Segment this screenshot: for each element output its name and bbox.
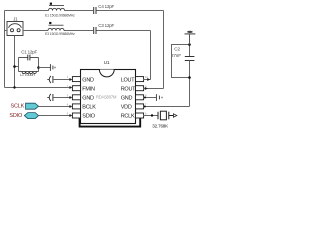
junction dot top — [188, 43, 191, 46]
svg-text:E3 15GΩ.99686MHz: E3 15GΩ.99686MHz — [45, 32, 75, 36]
capacitor C2 — [185, 57, 195, 61]
inductor E3 — [48, 25, 64, 30]
svg-text:RCLK: RCLK — [121, 114, 135, 120]
wire VDD — [144, 45, 190, 107]
wire LOUT — [144, 79, 151, 81]
capacitor (pin1 row) — [47, 76, 69, 83]
svg-text:BCLK: BCLK — [82, 105, 96, 111]
wire RCLK — [144, 115, 158, 117]
svg-text:L1 100uH: L1 100uH — [20, 73, 35, 77]
pin numbers left — [67, 75, 69, 115]
wire J1 bottom stub — [14, 36, 16, 88]
svg-text:LOUT: LOUT — [121, 77, 136, 83]
pin box R3 — [136, 95, 144, 100]
wire vertical x=163.6 to ROUT — [163, 11, 165, 89]
inductor L1 — [22, 72, 36, 74]
connector J1 — [7, 22, 23, 36]
pin numbers right — [145, 75, 148, 115]
arrow ROUT — [145, 87, 148, 90]
svg-text:SDIO: SDIO — [82, 114, 95, 120]
op IC U1 body — [81, 70, 136, 124]
svg-text:VDD: VDD — [121, 105, 132, 111]
wire SCLK to BCLK pin — [39, 106, 70, 108]
net tag SCLK — [26, 103, 39, 109]
polarity dot E3 — [49, 22, 51, 24]
svg-text:ROUT: ROUT — [121, 86, 136, 92]
wire ROUT — [144, 88, 164, 90]
ground (right) — [156, 94, 162, 101]
capacitor C1 — [28, 55, 30, 61]
arrow after crystal — [173, 114, 176, 117]
wire SDIO to SDIO pin — [39, 115, 70, 117]
wire vertical x=150 to LOUT — [150, 31, 152, 80]
wire GND right — [144, 97, 157, 99]
polarity dot E1 — [50, 3, 52, 5]
svg-text:U1: U1 — [104, 60, 110, 65]
capacitor C4 — [94, 7, 96, 14]
pin box L1 — [72, 77, 80, 82]
svg-text:GND: GND — [82, 77, 94, 83]
svg-text:32.768K: 32.768K — [152, 124, 168, 129]
pin box R4 — [136, 104, 144, 109]
ground (tank) — [50, 64, 55, 71]
wire C2 bypass loop — [172, 45, 190, 78]
IC notch — [99, 70, 114, 77]
left pin arrows — [69, 78, 72, 117]
antenna/power symbol — [185, 31, 196, 45]
junction dot VDD — [144, 106, 146, 108]
wire net row2 (y=30.3) — [23, 30, 151, 32]
inductor E1 — [49, 6, 65, 11]
svg-text:27nF: 27nF — [171, 53, 181, 58]
wire left vertical x=4.4 — [4, 11, 6, 88]
capacitor C3 — [94, 27, 96, 34]
svg-text:RDA5807M: RDA5807M — [96, 94, 117, 99]
svg-text:J1: J1 — [13, 17, 18, 22]
svg-text:SCLK: SCLK — [11, 103, 25, 109]
pin box L2 — [72, 86, 80, 91]
wire tank to ground — [39, 67, 51, 69]
net tag SDIO — [24, 113, 38, 119]
junction dot GND right — [144, 97, 146, 99]
arrow LOUT junction — [147, 78, 150, 81]
svg-text:C2: C2 — [174, 47, 180, 52]
junction dot RCLK — [151, 114, 153, 116]
tank loop wires — [15, 58, 39, 72]
pin box R2 — [136, 86, 144, 91]
pin box R5 — [136, 113, 144, 118]
wire J1 left stub — [5, 30, 49, 32]
pin box L3 — [72, 95, 80, 100]
svg-text:E1 15GΩ.99686MHz: E1 15GΩ.99686MHz — [45, 13, 75, 17]
svg-text:C1 12pF: C1 12pF — [21, 49, 37, 54]
svg-text:FMIN: FMIN — [82, 86, 95, 92]
junction dot bottom — [188, 76, 191, 79]
pin box L5 — [72, 113, 80, 118]
wire FMIN row — [5, 87, 70, 89]
svg-text:C3 12pF: C3 12pF — [98, 23, 114, 28]
junction dot FMIN/left vertical — [13, 86, 15, 88]
ground bus under IC — [80, 118, 141, 126]
junction dot tank right — [37, 66, 40, 69]
svg-text:GND: GND — [121, 96, 133, 102]
wire net row1 (top, y=11) — [5, 10, 164, 12]
pin box L4 — [72, 104, 80, 109]
capacitor (pin3 row) — [47, 94, 69, 101]
crystal Y1 — [158, 111, 173, 120]
svg-text:C4 12pF: C4 12pF — [98, 4, 114, 9]
junction dot tank left — [13, 65, 16, 68]
svg-text:SDIO: SDIO — [9, 113, 23, 119]
svg-text:GND: GND — [82, 96, 94, 102]
pin box R1 — [136, 77, 144, 82]
